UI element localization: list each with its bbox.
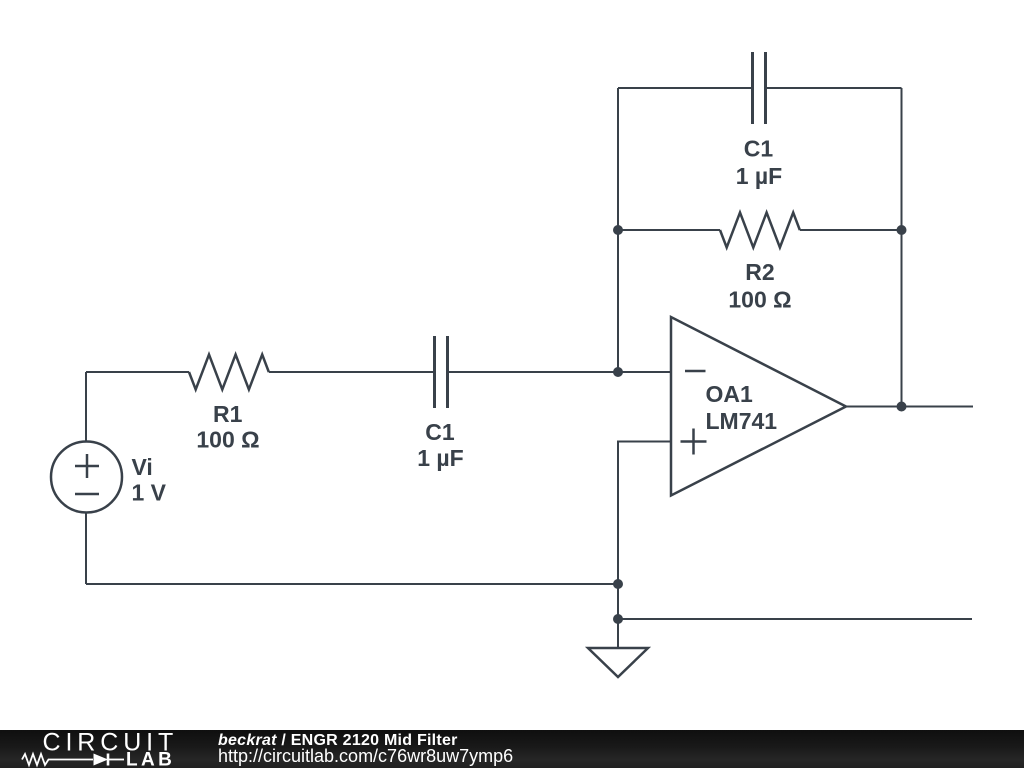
svg-text:LAB: LAB [126,749,175,768]
wire left vertical top (source to top rail) [85,372,87,442]
svg-text:OA1: OA1 [706,381,754,407]
wire bottom rail [86,583,618,585]
ground [588,648,648,677]
wire feedback top right [766,87,902,89]
svg-text:R1: R1 [213,401,243,427]
logo resistor [22,754,93,765]
wire feedback right vertical [901,88,903,407]
wire R2 left lead [618,229,720,231]
CircuitLab logo [0,730,190,768]
svg-text:C1: C1 [425,419,455,445]
svg-text:R2: R2 [745,259,774,285]
svg-text:C1: C1 [744,136,774,162]
voltage source minus [75,493,99,496]
wire feedback left vertical [617,88,619,372]
svg-text:1 µF: 1 µF [417,445,463,471]
node: output junction [897,402,907,412]
capacitor C1 feedback [753,52,766,124]
resistor R1 [189,355,269,390]
voltage source Vi circle [51,442,122,513]
logo diode [94,754,109,766]
wire lower right rail [618,618,972,620]
node: inverting input junction [613,367,623,377]
wire C1 to op-amp inverting input [448,371,672,373]
node: ground rail junction [613,614,623,624]
capacitor C1 series [435,336,448,408]
wire R2 right lead [800,229,902,231]
svg-text:100 Ω: 100 Ω [728,287,791,313]
svg-text:LM741: LM741 [706,408,778,434]
op-amp OA1 triangle [671,317,846,496]
op-amp plus symbol [681,440,707,443]
node: feedback right R2 junction [897,225,907,235]
voltage source plus [75,465,99,468]
node: feedback left R2 junction [613,225,623,235]
wire R1 left lead [86,371,189,373]
op-amp minus symbol [685,370,706,373]
wire op-amp + input [618,442,671,649]
svg-text:1 µF: 1 µF [736,163,782,189]
footer bar [0,730,1024,768]
wire feedback top left [618,87,753,89]
wire left vertical bottom (source to bottom rail) [85,513,87,585]
wire output [846,406,973,408]
footer meta text [218,731,458,750]
node: bottom rail junction [613,579,623,589]
resistor R2 [720,213,800,248]
svg-text:100 Ω: 100 Ω [196,427,259,453]
svg-text:Vi: Vi [132,454,153,480]
wire R1 to C1 [269,371,435,373]
svg-text:1 V: 1 V [132,479,167,505]
